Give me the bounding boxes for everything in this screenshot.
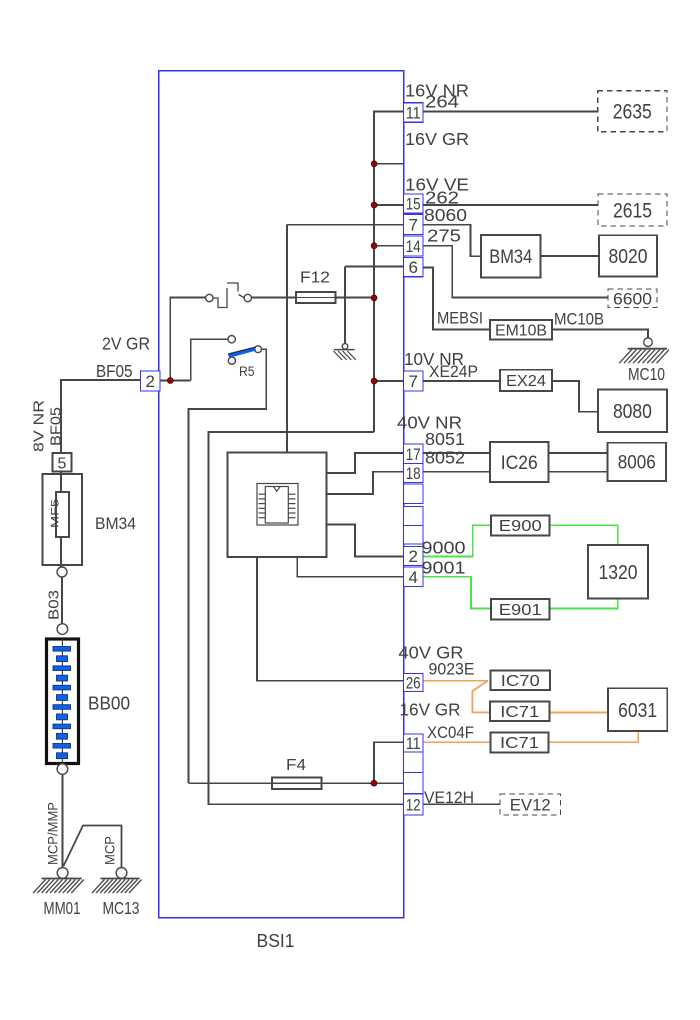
- svg-text:XE24P: XE24P: [429, 363, 478, 381]
- svg-text:B03: B03: [46, 590, 63, 620]
- svg-text:8060: 8060: [424, 205, 467, 225]
- wire MCU to pin 18: [327, 472, 404, 494]
- svg-text:26: 26: [406, 674, 421, 693]
- connector 2635: [598, 91, 667, 132]
- wire MCU to pin 17: [327, 453, 404, 473]
- svg-text:2635: 2635: [613, 101, 652, 124]
- svg-text:IC71: IC71: [500, 704, 539, 721]
- svg-text:275: 275: [427, 226, 461, 246]
- svg-text:F12: F12: [300, 270, 330, 287]
- svg-text:8051: 8051: [425, 429, 465, 449]
- pin 7 (XE24P): [404, 371, 424, 391]
- ground MC10 terminal circle: [644, 338, 653, 347]
- wire XE24P to EX24: [423, 380, 500, 382]
- svg-text:IC71: IC71: [500, 735, 539, 752]
- module IC26: [490, 442, 549, 482]
- internal ground terminal circle: [342, 344, 348, 350]
- wire 8051 to IC26: [423, 452, 490, 454]
- connector 6600: [608, 289, 657, 308]
- R5 output contact: [255, 346, 262, 353]
- wire 9001 to E901: [423, 577, 491, 609]
- wire 8060 to BM34: [423, 225, 481, 257]
- pin 2 (9000): [404, 547, 424, 566]
- svg-text:16V GR: 16V GR: [400, 700, 461, 720]
- junction pin 2 node: [167, 378, 173, 384]
- pin 15 (262): [404, 194, 424, 213]
- BSI1 control-unit box: [159, 71, 404, 918]
- svg-text:BM34: BM34: [489, 247, 532, 268]
- wire MCU to pin 26: [257, 557, 404, 681]
- wire through fuse F4: [189, 782, 375, 784]
- wire bus to pin 7 XE24P: [374, 380, 403, 382]
- module 1320: [588, 545, 648, 599]
- junction bus pin 7: [371, 378, 377, 384]
- svg-text:BF05: BF05: [96, 361, 133, 381]
- splice IC71 upper: [490, 702, 550, 722]
- splice IC71 lower: [491, 733, 549, 753]
- svg-text:40V GR: 40V GR: [399, 643, 464, 663]
- svg-text:MCP: MCP: [102, 836, 118, 865]
- ground MC13 hatch: [92, 879, 142, 894]
- wire bus stub 16V GR: [374, 163, 403, 165]
- pin 14 (275): [404, 236, 424, 256]
- wire 9000 to E900: [423, 525, 491, 556]
- wire R5 output down to F4: [189, 349, 267, 783]
- wire F4 up to pin 11 XC04F: [374, 742, 404, 783]
- wire 9023E to IC70: [423, 680, 488, 682]
- svg-text:BB00: BB00: [88, 693, 130, 714]
- splice E901: [491, 599, 550, 620]
- ground MM01 hatch: [33, 879, 84, 894]
- svg-text:1320: 1320: [599, 562, 638, 584]
- push-button left contact: [206, 294, 213, 301]
- wire MCP branch to MC13: [64, 826, 122, 868]
- splice IC70: [491, 671, 551, 691]
- pin 11 (XC04F): [404, 734, 424, 752]
- svg-text:17: 17: [406, 445, 421, 464]
- svg-text:BF05: BF05: [48, 407, 65, 446]
- svg-text:F4: F4: [286, 757, 306, 774]
- pin spare 4: [404, 752, 424, 773]
- svg-text:XC04F: XC04F: [427, 724, 474, 742]
- pin 4 (9001): [404, 567, 424, 587]
- wire IC26 to 8006 upper: [549, 452, 609, 454]
- svg-text:12: 12: [406, 796, 421, 815]
- junction bus pin 14: [371, 243, 377, 249]
- svg-text:IC26: IC26: [501, 453, 538, 474]
- svg-text:MEBSI: MEBSI: [437, 310, 483, 328]
- relay contact R5 blade: [229, 349, 256, 356]
- svg-text:7: 7: [408, 216, 417, 235]
- pin spare 5: [404, 773, 424, 794]
- svg-text:E901: E901: [499, 602, 542, 619]
- wire VE12H to EV12: [423, 803, 500, 805]
- junction bus F12: [371, 295, 377, 301]
- svg-text:18: 18: [406, 464, 421, 483]
- wire ignition feed through F12: [252, 297, 375, 299]
- wire internal supply bus from pin 11: [374, 112, 403, 433]
- svg-text:9023E: 9023E: [429, 661, 475, 679]
- wire bus to pin 15: [374, 204, 403, 206]
- pin 7 (8060): [404, 215, 424, 235]
- module 6031: [608, 688, 667, 731]
- wire XC04F to IC71: [423, 741, 491, 743]
- module 8020: [599, 235, 657, 276]
- wire MC10B to ground MC10: [552, 329, 648, 337]
- wire bus down-left to pin 12: [209, 432, 404, 804]
- svg-text:9001: 9001: [422, 558, 466, 578]
- svg-text:8052: 8052: [425, 448, 465, 468]
- fuse F4: [272, 778, 322, 790]
- wire BF05 to fuse holder: [61, 380, 141, 453]
- IC chip symbol: [257, 484, 298, 526]
- svg-text:9000: 9000: [422, 538, 466, 558]
- microcontroller block U1: [228, 453, 327, 558]
- pin 2 (BF05): [141, 371, 161, 391]
- wire ground drop: [344, 267, 346, 344]
- pin spare 3: [404, 526, 424, 545]
- wire BM34 to 8020: [541, 255, 600, 257]
- R5 moving pivot contact: [228, 357, 235, 364]
- push-button actuator step: [213, 288, 227, 308]
- module 8080: [598, 390, 667, 432]
- svg-text:2615: 2615: [613, 199, 652, 222]
- svg-text:R5: R5: [239, 364, 255, 379]
- svg-text:VE12H: VE12H: [424, 789, 474, 807]
- terminal circle below battery: [57, 764, 68, 775]
- wire 8060 down to microcontroller: [286, 225, 288, 453]
- svg-text:MCP/MMP: MCP/MMP: [45, 802, 61, 865]
- wire EX24 to 8080: [552, 381, 598, 412]
- fuse F12: [296, 292, 336, 303]
- svg-text:EV12: EV12: [510, 796, 551, 814]
- svg-text:11: 11: [406, 104, 421, 123]
- svg-text:MC10B: MC10B: [554, 311, 604, 329]
- module 8006: [608, 443, 666, 481]
- svg-text:11: 11: [406, 734, 421, 753]
- pin 18 (8052): [404, 464, 424, 483]
- pin 26 (9023E): [404, 674, 424, 692]
- ground MC10 hatch: [619, 349, 669, 364]
- wire up to R5 fixed contact: [191, 339, 228, 380]
- battery BB00: [47, 639, 79, 764]
- pin 11 (264): [404, 103, 424, 122]
- ground MM01 terminal circle: [57, 868, 68, 879]
- svg-text:264: 264: [425, 92, 459, 112]
- pin 6 (MEBSI): [404, 258, 424, 277]
- splice E900: [491, 515, 550, 535]
- svg-text:8V NR: 8V NR: [31, 400, 48, 452]
- wire MCU to pin 2: [327, 525, 404, 557]
- svg-text:15: 15: [406, 195, 421, 214]
- svg-text:MF5: MF5: [50, 499, 62, 528]
- splice EM10B: [490, 320, 552, 340]
- fuse box BM34: [43, 474, 83, 565]
- svg-text:2: 2: [145, 372, 154, 391]
- wire F4 to spare pin: [374, 782, 404, 784]
- wire E901 to 1320: [550, 599, 618, 609]
- svg-text:MC10: MC10: [628, 364, 665, 384]
- wire MEBSI pin 6 to EM10B: [423, 268, 490, 330]
- svg-text:6: 6: [408, 258, 417, 277]
- wire pin 2 stub: [160, 380, 171, 382]
- fuse F4 inner line: [272, 782, 322, 784]
- wire B03: [61, 577, 63, 624]
- fuse MF5: [56, 492, 69, 537]
- push-button blade link: [239, 295, 245, 298]
- wire MCU to pin 4: [297, 557, 403, 577]
- pin 5 of BM34: [53, 453, 72, 472]
- wire MCP/MMP to MM01: [61, 775, 63, 868]
- svg-text:6600: 6600: [613, 289, 652, 308]
- wire IC71 to 6031: [550, 711, 609, 713]
- wire E900 to 1320: [550, 525, 618, 545]
- wire pin 2 to push-button: [170, 298, 205, 381]
- svg-text:EX24: EX24: [506, 373, 546, 390]
- svg-text:8080: 8080: [613, 401, 652, 423]
- svg-text:16V GR: 16V GR: [405, 129, 469, 149]
- pin 17 (8051): [404, 444, 424, 464]
- svg-text:14: 14: [406, 237, 421, 256]
- wire through fuse MF5: [60, 472, 62, 567]
- junction bus 16V GR: [371, 161, 377, 167]
- wire 262 to 2615: [423, 204, 598, 206]
- pin 12 (VE12H): [404, 794, 424, 815]
- svg-text:MC13: MC13: [103, 898, 140, 918]
- module BM34: [481, 235, 541, 278]
- wire branch to IC71: [472, 681, 490, 713]
- svg-text:6031: 6031: [618, 700, 657, 722]
- terminal circle below BM34: [57, 567, 67, 577]
- push-button right contact: [244, 294, 251, 301]
- svg-text:8006: 8006: [618, 453, 656, 474]
- svg-text:2V GR: 2V GR: [102, 334, 150, 354]
- svg-text:IC70: IC70: [501, 673, 540, 690]
- svg-text:4: 4: [408, 568, 417, 587]
- internal ground hatch: [334, 350, 356, 360]
- wire internal pin 6 to ground tap: [345, 266, 404, 268]
- wire pin 2 junction to R5 branch: [170, 380, 190, 382]
- svg-text:7: 7: [408, 372, 417, 391]
- pin spare 2: [404, 507, 424, 526]
- wire 8052 to IC26: [423, 471, 490, 473]
- wire IC26 to 8006 lower: [549, 471, 609, 473]
- R5 fixed contact: [228, 336, 235, 343]
- junction F4 node: [371, 780, 377, 786]
- wire IC71 to 6031 bottom: [549, 731, 639, 742]
- svg-text:5: 5: [58, 456, 67, 473]
- svg-text:2: 2: [408, 547, 417, 566]
- svg-text:EM10B: EM10B: [495, 322, 547, 339]
- pin spare 1: [404, 484, 424, 504]
- wire 8060 internal to pin 7: [287, 224, 404, 226]
- wire 264 to 2635: [423, 111, 598, 113]
- svg-text:E900: E900: [499, 518, 542, 535]
- svg-text:BSI1: BSI1: [257, 930, 295, 951]
- push-button actuator bridge: [227, 283, 238, 292]
- terminal circle above battery: [57, 624, 68, 635]
- ground MC13 terminal circle: [116, 868, 127, 879]
- svg-text:8020: 8020: [609, 246, 648, 268]
- connector EV12: [500, 794, 561, 815]
- svg-text:MM01: MM01: [44, 898, 81, 918]
- splice EX24: [500, 370, 552, 391]
- connector 2615: [598, 194, 667, 226]
- svg-text:BM34: BM34: [95, 515, 136, 533]
- wire bus to pin 14: [374, 245, 403, 247]
- fuse F12 inner line: [296, 297, 336, 299]
- wire 275 to 6600: [423, 246, 608, 298]
- junction bus pin 15: [371, 202, 377, 208]
